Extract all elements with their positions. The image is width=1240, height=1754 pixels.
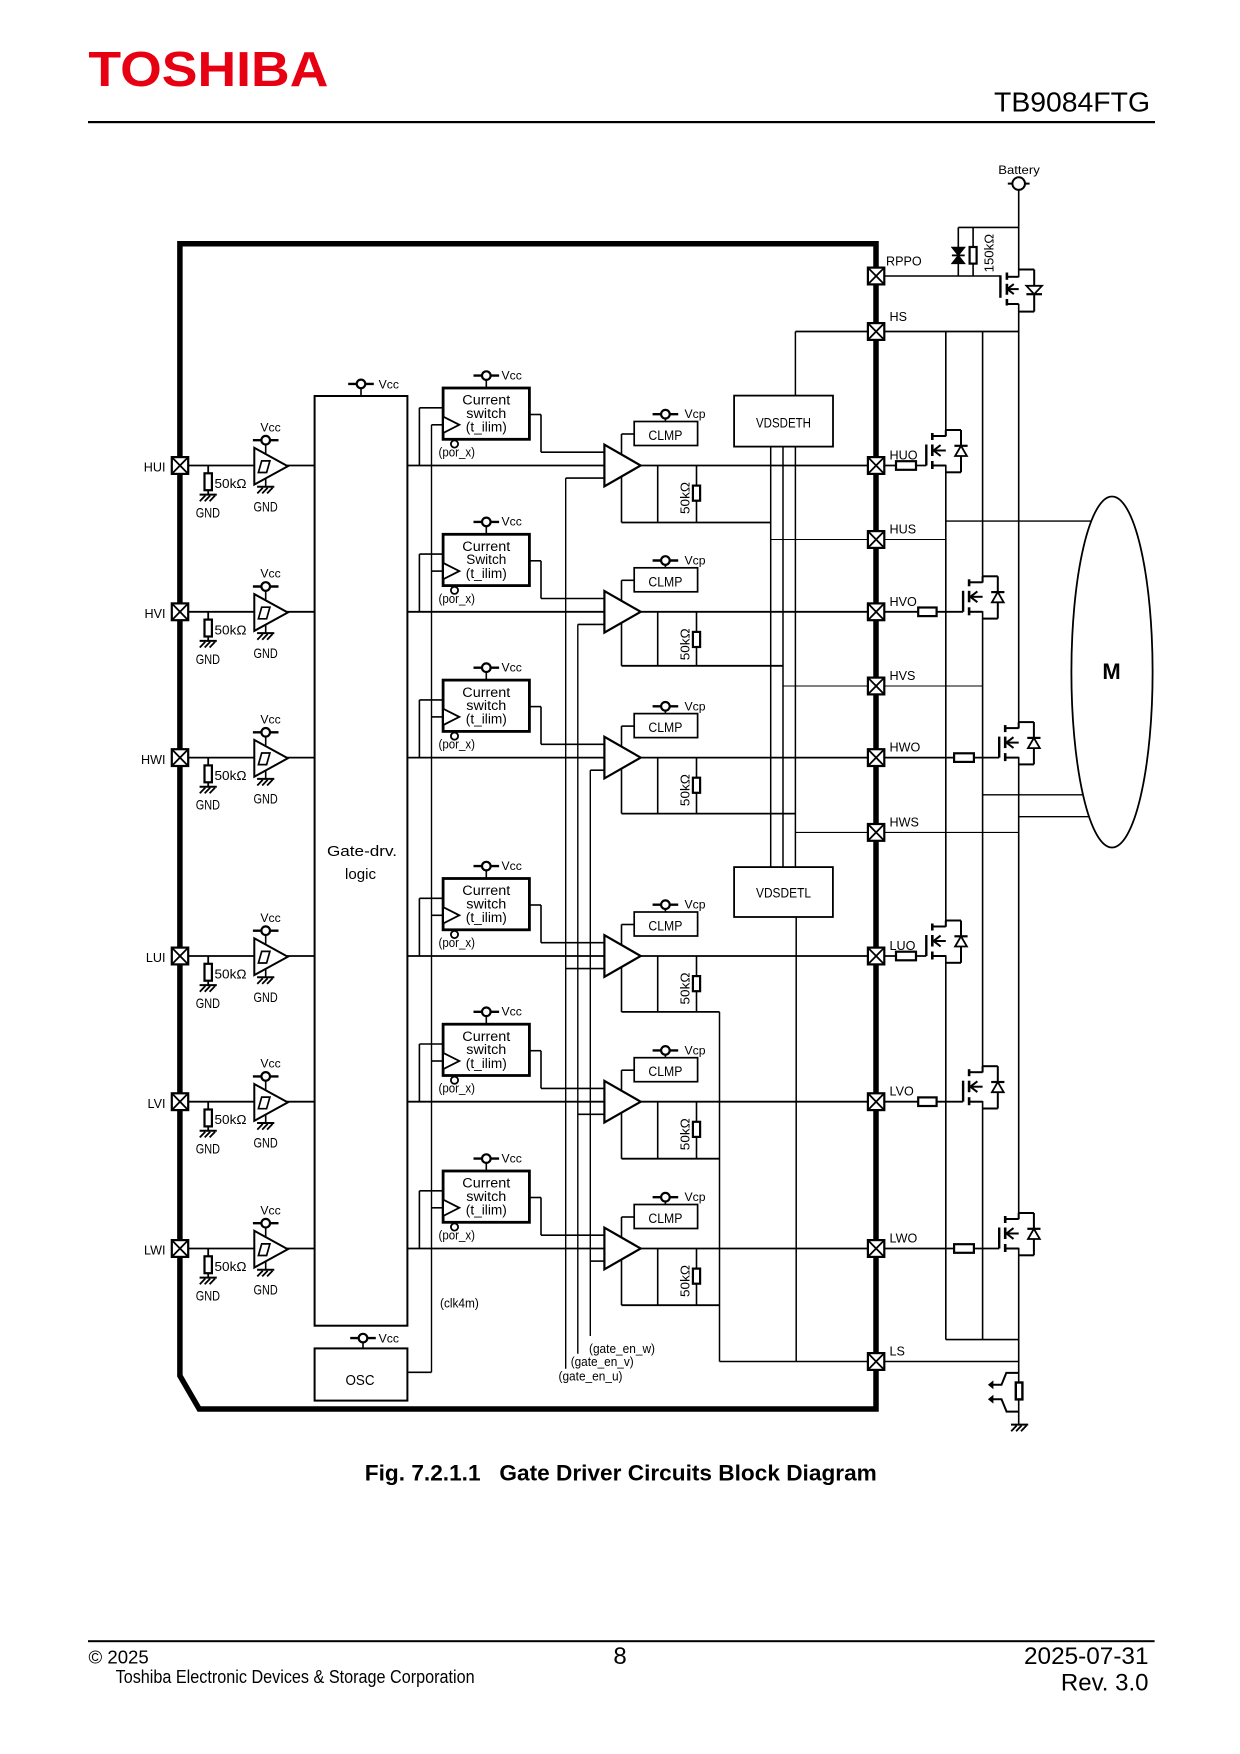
gate driver LUO: [604, 935, 640, 977]
Vcc tap current switch LVO: [474, 1008, 500, 1017]
svg-text:(gate_en_u): (gate_en_u): [559, 1368, 623, 1383]
wire row LWO output: [641, 1248, 1000, 1250]
wire 50k pulldown leg HWO: [696, 758, 698, 814]
por_x node LWO: [451, 1223, 458, 1230]
current sense arrow bottom: [992, 1399, 1019, 1411]
svg-text:50kΩ: 50kΩ: [215, 1259, 247, 1274]
svg-text:Vcp: Vcp: [685, 1190, 706, 1204]
footer rule: [88, 1640, 1155, 1642]
wire CLMP input LVO: [622, 1069, 635, 1071]
svg-text:Vcc: Vcc: [502, 515, 522, 529]
svg-text:50kΩ: 50kΩ: [678, 1118, 693, 1150]
clamp block CLMP HVO: [634, 568, 697, 592]
wire CLMP input HVO: [622, 579, 635, 581]
svg-text:GND: GND: [196, 996, 220, 1011]
por_x node HVO: [451, 587, 458, 594]
ground LUI pulldown: [200, 985, 217, 992]
wire 50k pulldown leg HVO: [696, 612, 698, 666]
svg-text:Toshiba Electronic Devices & S: Toshiba Electronic Devices & Storage Cor…: [116, 1666, 475, 1687]
svg-text:Vcc: Vcc: [379, 377, 399, 391]
svg-text:50kΩ: 50kΩ: [678, 628, 693, 660]
schmitt buffer HUI: [254, 448, 287, 485]
wire gate rail LVO: [622, 1158, 720, 1160]
pin HWI: [172, 749, 188, 766]
svg-text:(por_x): (por_x): [439, 1081, 476, 1096]
svg-text:(por_x): (por_x): [439, 935, 476, 950]
wire row HWO input: [188, 757, 604, 759]
wire HUS sense: [771, 539, 946, 541]
wire current-switch output jog HUO: [529, 414, 541, 416]
wire battery column / W phase: [1018, 190, 1020, 277]
ground shunt: [1011, 1425, 1028, 1432]
svg-text:Vcc: Vcc: [260, 1203, 280, 1217]
wire current-switch output jog LWO: [529, 1197, 541, 1199]
svg-text:Vcc: Vcc: [502, 660, 522, 674]
pin HVO: [868, 603, 884, 620]
wire row LVO input: [188, 1101, 604, 1103]
wire zener legs: [957, 227, 959, 247]
wire driver output to rail HVO: [657, 612, 659, 666]
resistor 50k gate pulldown LUO: [693, 976, 700, 991]
schmitt buffer LWI: [254, 1231, 287, 1268]
block VDSDETL: [734, 867, 833, 917]
wire driver output to rail HUO: [657, 466, 659, 523]
resistor gate series LUO: [896, 952, 916, 961]
svg-text:Vcp: Vcp: [685, 898, 706, 912]
ground schmitt LUI: [265, 969, 267, 977]
svg-text:HUI: HUI: [144, 461, 166, 475]
wire gate enable entry LUO: [566, 968, 605, 970]
wire row LWO input: [188, 1248, 604, 1250]
Vcp tap HUO: [653, 410, 679, 419]
svg-text:(t_ilim): (t_ilim): [466, 566, 507, 581]
Vcc tap current switch LWO: [474, 1154, 500, 1163]
svg-text:GND: GND: [254, 990, 278, 1005]
svg-text:RPPO: RPPO: [886, 255, 922, 269]
wire CLMP input HWO: [622, 725, 635, 727]
resistor 50k pulldown HWI: [207, 758, 209, 766]
svg-text:Rev. 3.0: Rev. 3.0: [1061, 1670, 1149, 1697]
svg-text:GND: GND: [254, 1136, 278, 1151]
ground HVI pulldown: [200, 641, 217, 648]
wire 50k pulldown leg LWO: [696, 1249, 698, 1306]
wire low-side rails to LS: [719, 1012, 721, 1362]
wire clk4m bus: [431, 425, 433, 1373]
wire CLMP input HUO: [622, 433, 635, 435]
resistor 50k pulldown HUI: [207, 466, 209, 474]
transistor Q-LV: [963, 1066, 1004, 1108]
resistor 50k gate pulldown HVO: [693, 632, 700, 647]
wire HS to VDSDETH: [794, 332, 796, 396]
resistor gate series HWO: [954, 753, 974, 762]
schmitt buffer HWI: [254, 740, 287, 777]
wire gate enable entry HVO: [578, 623, 605, 625]
svg-text:© 2025: © 2025: [89, 1646, 149, 1667]
battery terminal: [1012, 177, 1025, 190]
svg-text:(t_ilim): (t_ilim): [466, 712, 507, 727]
zener diode (reverse protection clamp): [952, 247, 965, 255]
current switch block HWO (t_ilim): [443, 680, 529, 731]
pin LUI: [172, 948, 188, 965]
pin LWO: [868, 1240, 884, 1257]
Vcc tap current switch LUO: [474, 862, 500, 871]
Vcc tap schmitt HVI: [253, 582, 279, 591]
Vcc tap logic: [348, 380, 374, 389]
svg-text:GND: GND: [196, 652, 220, 667]
svg-text:Vcc: Vcc: [502, 859, 522, 873]
ground schmitt HUI: [265, 478, 267, 486]
svg-text:VDSDETL: VDSDETL: [756, 886, 811, 901]
pin HVI: [172, 603, 188, 620]
svg-text:HVO: HVO: [890, 595, 917, 609]
chip boundary: [180, 244, 876, 1409]
reverse protection MOSFET: [999, 275, 1001, 298]
transistor Q-LW: [999, 1213, 1040, 1255]
svg-text:50kΩ: 50kΩ: [678, 1265, 693, 1297]
Vcp tap LWO: [653, 1193, 679, 1202]
gate driver LVO: [604, 1081, 640, 1123]
svg-text:Fig. 7.2.1.1 Gate Driver Cir: Fig. 7.2.1.1 Gate Driver Circuits Block …: [365, 1461, 877, 1486]
wire clk tap LVO: [432, 1060, 444, 1062]
svg-text:CLMP: CLMP: [648, 919, 682, 934]
svg-text:Vcp: Vcp: [685, 699, 706, 713]
wire U phase column: [945, 332, 947, 437]
svg-text:Vcp: Vcp: [685, 1043, 706, 1057]
svg-text:Vcc: Vcc: [502, 1151, 522, 1165]
block Gate-drv. logic: [315, 396, 408, 1326]
wire gate rail LWO: [622, 1304, 720, 1306]
wire RPPO gate: [884, 275, 1000, 277]
wire motor tap V: [983, 794, 1084, 796]
pin HUO: [868, 457, 884, 474]
svg-text:TB9084FTG: TB9084FTG: [994, 86, 1150, 117]
resistor 50k gate pulldown HUO: [693, 486, 700, 501]
ground LWI pulldown: [200, 1278, 217, 1285]
svg-text:150kΩ: 150kΩ: [982, 234, 997, 273]
wire current-switch output jog LVO: [529, 1050, 541, 1052]
wire HVS sense: [783, 685, 983, 687]
wire row HWO output: [641, 757, 1000, 759]
clamp block CLMP LUO: [634, 912, 697, 936]
wire row HVO input: [188, 611, 604, 613]
svg-text:TOSHIBA: TOSHIBA: [88, 42, 328, 97]
svg-text:(por_x): (por_x): [439, 591, 476, 606]
wire V phase column: [982, 332, 984, 583]
svg-text:HVS: HVS: [890, 669, 916, 683]
wire current-switch feed HUO: [418, 408, 420, 466]
wire motor tap W: [1019, 816, 1090, 818]
Vcc tap schmitt LWI: [253, 1219, 279, 1228]
clamp block CLMP LVO: [634, 1058, 697, 1082]
svg-text:Vcc: Vcc: [502, 1005, 522, 1019]
pin LWI: [172, 1240, 188, 1257]
svg-text:Vcc: Vcc: [260, 712, 280, 726]
wire gate rail HUO: [622, 522, 771, 524]
wire current-switch feed HWO: [418, 700, 420, 758]
wire CLMP input LUO: [622, 924, 635, 926]
svg-text:GND: GND: [254, 646, 278, 661]
svg-text:(por_x): (por_x): [439, 737, 476, 752]
por_x node HUO: [451, 440, 458, 447]
svg-text:Vcc: Vcc: [379, 1332, 399, 1346]
wire battery top rail: [958, 226, 1018, 228]
current switch block LVO (t_ilim): [443, 1024, 529, 1075]
wire CLMP input LWO: [622, 1216, 635, 1218]
gate driver HVO: [604, 591, 640, 633]
ground HWI pulldown: [200, 787, 217, 794]
svg-text:HWI: HWI: [141, 753, 165, 767]
wire clk tap HVO: [432, 570, 444, 572]
wire row LVO output: [641, 1101, 963, 1103]
svg-text:Battery: Battery: [998, 163, 1040, 177]
pin HS: [868, 323, 884, 340]
pin HVS: [868, 678, 884, 695]
svg-text:Gate-drv.: Gate-drv.: [327, 843, 397, 860]
wire current-switch feed LWO: [418, 1191, 420, 1249]
schmitt buffer LVI: [254, 1084, 287, 1121]
wire gate_en_w vertical: [589, 770, 591, 1336]
wire motor tap U: [946, 520, 1092, 522]
wire 50k pulldown leg LVO: [696, 1102, 698, 1159]
svg-text:HUS: HUS: [890, 523, 917, 537]
svg-text:50kΩ: 50kΩ: [215, 476, 247, 491]
svg-text:50kΩ: 50kΩ: [678, 972, 693, 1004]
svg-text:2025-07-31: 2025-07-31: [1024, 1643, 1149, 1670]
svg-text:CLMP: CLMP: [648, 428, 682, 443]
wire OSC output: [407, 1371, 431, 1373]
pin LVI: [172, 1093, 188, 1110]
gate driver HUO: [604, 445, 640, 487]
wire current-switch output jog HWO: [529, 706, 541, 708]
schmitt buffer HVI: [254, 594, 287, 631]
svg-text:LS: LS: [890, 1345, 905, 1359]
por_x node LVO: [451, 1077, 458, 1084]
svg-text:LUI: LUI: [146, 951, 166, 965]
svg-text:(t_ilim): (t_ilim): [466, 1056, 507, 1071]
motor M: [1071, 497, 1152, 848]
wire HWS sense: [795, 831, 1018, 833]
svg-text:LVO: LVO: [890, 1085, 914, 1099]
svg-text:GND: GND: [254, 1283, 278, 1298]
Vcp tap HVO: [653, 556, 679, 565]
svg-text:GND: GND: [254, 500, 278, 515]
svg-text:50kΩ: 50kΩ: [215, 768, 247, 783]
svg-text:GND: GND: [196, 1142, 220, 1157]
wire gate enable entry HUO: [566, 477, 605, 479]
svg-text:50kΩ: 50kΩ: [678, 774, 693, 806]
transistor Q-HU: [926, 430, 967, 472]
svg-text:GND: GND: [196, 1289, 220, 1304]
ground schmitt HVI: [265, 625, 267, 633]
pin HUI: [172, 457, 188, 474]
current switch block HVO (t_ilim): [443, 534, 529, 585]
por_x node HWO: [451, 733, 458, 740]
clamp block CLMP HWO: [634, 714, 697, 738]
transistor Q-HV: [963, 576, 1004, 618]
wire low-side source rail: [946, 1339, 1019, 1341]
Vcc tap OSC: [350, 1334, 376, 1343]
resistor 50k pulldown LVI: [207, 1102, 209, 1110]
resistor 50k pulldown HVI: [207, 612, 209, 620]
svg-text:LVI: LVI: [148, 1097, 166, 1111]
svg-text:(t_ilim): (t_ilim): [466, 1203, 507, 1218]
svg-text:50kΩ: 50kΩ: [215, 1112, 247, 1127]
svg-text:HS: HS: [890, 310, 908, 324]
svg-text:CLMP: CLMP: [648, 574, 682, 589]
wire clk tap HUO: [432, 424, 444, 426]
wire gate enable entry HWO: [590, 769, 604, 771]
svg-text:(clk4m): (clk4m): [440, 1296, 479, 1311]
wire current-switch feed LVO: [418, 1044, 420, 1102]
svg-text:CLMP: CLMP: [648, 1211, 682, 1226]
svg-text:(por_x): (por_x): [439, 1228, 476, 1243]
pin HWS: [868, 824, 884, 841]
svg-text:LUO: LUO: [890, 939, 916, 953]
block VDSDETH: [734, 396, 833, 447]
wire driver output to rail LUO: [657, 956, 659, 1012]
resistor 50k gate pulldown LVO: [693, 1122, 700, 1137]
svg-text:CLMP: CLMP: [648, 1064, 682, 1079]
wire gate enable entry LVO: [578, 1113, 605, 1115]
svg-text:M: M: [1102, 659, 1120, 684]
pin LS: [868, 1353, 884, 1370]
svg-text:GND: GND: [196, 506, 220, 521]
pin HUS: [868, 531, 884, 548]
svg-text:logic: logic: [345, 866, 376, 883]
body diode reverse protection: [1019, 269, 1034, 271]
pin LUO: [868, 948, 884, 965]
por_x node LUO: [451, 931, 458, 938]
svg-text:OSC: OSC: [346, 1372, 375, 1389]
svg-text:HWO: HWO: [890, 741, 921, 755]
wire current-switch output jog HVO: [529, 560, 541, 562]
wire driver output to rail HWO: [657, 758, 659, 814]
svg-text:(t_ilim): (t_ilim): [466, 910, 507, 925]
svg-text:HWS: HWS: [890, 815, 919, 829]
Vcc tap schmitt LUI: [253, 926, 279, 935]
wire clk tap LWO: [432, 1207, 444, 1209]
svg-text:VDSDETH: VDSDETH: [756, 416, 811, 431]
Vcc tap schmitt LVI: [253, 1072, 279, 1081]
wire HS rail: [795, 331, 1018, 333]
Vcc tap schmitt HUI: [253, 436, 279, 445]
svg-text:GND: GND: [254, 792, 278, 807]
svg-text:8: 8: [613, 1643, 626, 1670]
schmitt buffer LUI: [254, 938, 287, 975]
gate driver HWO: [604, 737, 640, 779]
wire gate rail LUO: [622, 1011, 720, 1013]
current sense arrow top: [992, 1373, 1019, 1385]
svg-text:(gate_en_v): (gate_en_v): [571, 1354, 634, 1369]
svg-text:50kΩ: 50kΩ: [215, 967, 247, 982]
shunt resistor LS: [1016, 1383, 1023, 1400]
clamp block CLMP LWO: [634, 1205, 697, 1229]
resistor 50k pulldown LWI: [207, 1249, 209, 1257]
wire row HUO input: [188, 465, 604, 467]
wire row LUO output: [641, 955, 927, 957]
Vcc tap current switch HUO: [474, 371, 500, 380]
svg-text:(t_ilim): (t_ilim): [466, 420, 507, 435]
current switch block HUO (t_ilim): [443, 388, 529, 439]
gate driver LWO: [604, 1228, 640, 1270]
current switch block LWO (t_ilim): [443, 1171, 529, 1222]
wire gate_en_v vertical: [577, 624, 579, 1353]
svg-text:HUO: HUO: [890, 449, 918, 463]
resistor 150k: [970, 247, 977, 264]
svg-text:Vcc: Vcc: [260, 567, 280, 581]
wire VDSDETL to LS: [795, 917, 797, 1362]
wire driver output to rail LWO: [657, 1249, 659, 1306]
ground schmitt LWI: [265, 1261, 267, 1269]
wire row HVO output: [641, 611, 963, 613]
pin HWO: [868, 749, 884, 766]
ground LVI pulldown: [200, 1131, 217, 1138]
svg-text:50kΩ: 50kΩ: [215, 622, 247, 637]
wire gate rail HVO: [622, 665, 784, 667]
wire row HUO output: [641, 465, 927, 467]
svg-text:LWI: LWI: [144, 1244, 165, 1258]
wire gate enable entry LWO: [590, 1260, 604, 1262]
svg-text:Vcc: Vcc: [260, 911, 280, 925]
svg-text:HVI: HVI: [145, 607, 166, 621]
svg-text:LWO: LWO: [890, 1232, 918, 1246]
wire row LUO input: [188, 955, 604, 957]
wire gate rail HWO: [622, 813, 796, 815]
resistor gate series HVO: [918, 608, 936, 617]
wire VDSDETH sense U: [770, 447, 772, 867]
Vcc tap current switch HVO: [474, 518, 500, 527]
current switch block LUO (t_ilim): [443, 879, 529, 930]
wire gate_en_u vertical: [565, 478, 567, 1369]
wire LS: [720, 1361, 1019, 1363]
wire 150k legs: [972, 227, 974, 247]
svg-text:CLMP: CLMP: [648, 720, 682, 735]
svg-text:(por_x): (por_x): [439, 445, 476, 460]
pin RPPO: [868, 268, 884, 285]
wire clk tap LUO: [432, 914, 444, 916]
wire VDSDETH sense W: [794, 447, 796, 867]
svg-text:Vcp: Vcp: [685, 554, 706, 568]
wire current-switch output jog LUO: [529, 904, 541, 906]
block OSC: [315, 1348, 408, 1400]
Vcc tap current switch HWO: [474, 663, 500, 672]
wire current-switch feed LUO: [418, 898, 420, 956]
header rule: [88, 121, 1155, 123]
resistor gate series LWO: [954, 1244, 974, 1253]
svg-text:Vcc: Vcc: [260, 420, 280, 434]
wire VDSDETH sense V: [782, 447, 784, 867]
wire 50k pulldown leg HUO: [696, 466, 698, 523]
Vcp tap LVO: [653, 1046, 679, 1055]
resistor 50k gate pulldown LWO: [693, 1269, 700, 1284]
resistor 50k gate pulldown HWO: [693, 778, 700, 793]
transistor Q-HW: [999, 722, 1040, 764]
Vcp tap HWO: [653, 702, 679, 711]
ground HUI pulldown: [200, 495, 217, 502]
transistor Q-LU: [926, 921, 967, 963]
Vcp tap LUO: [653, 900, 679, 909]
wire driver output to rail LVO: [657, 1102, 659, 1159]
ground schmitt LVI: [265, 1115, 267, 1123]
svg-text:Vcp: Vcp: [685, 407, 706, 421]
Vcc tap schmitt HWI: [253, 728, 279, 737]
pin LVO: [868, 1093, 884, 1110]
svg-text:GND: GND: [196, 798, 220, 813]
resistor gate series LVO: [918, 1097, 936, 1106]
svg-text:50kΩ: 50kΩ: [678, 482, 693, 514]
wire 50k pulldown leg LUO: [696, 956, 698, 1012]
resistor gate series HUO: [896, 461, 916, 470]
